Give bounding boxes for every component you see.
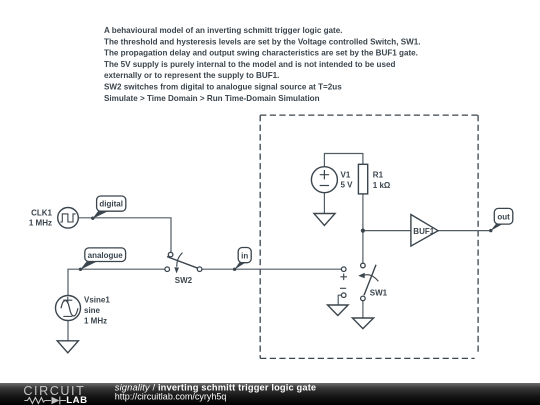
wire R1 bottom to SW1 top [362, 194, 364, 263]
wire SW1 bottom to ground [362, 301, 364, 318]
svg-text:CLK1: CLK1 [31, 209, 52, 218]
svg-text:LAB: LAB [66, 395, 88, 405]
svg-text:out: out [497, 212, 510, 221]
svg-text:R1: R1 [373, 171, 384, 180]
wire SW1 minus to ground [338, 295, 341, 305]
wire analogue to SW2 left [68, 269, 165, 295]
svg-text:analogue: analogue [88, 251, 124, 260]
wire BUF1 output to out [438, 230, 491, 232]
ground under Vsine1 [57, 341, 78, 353]
svg-text:The 5V supply is purely intern: The 5V supply is purely internal to the … [104, 60, 395, 69]
node junction dot [361, 229, 365, 233]
wire Vsine1 to ground [67, 321, 69, 341]
svg-text:5 V: 5 V [341, 181, 354, 190]
svg-text:http://circuitlab.com/cyryh5q: http://circuitlab.com/cyryh5q [115, 392, 227, 402]
ground under V1 [314, 214, 335, 226]
svg-text:SW2 switches from digital to a: SW2 switches from digital to analogue si… [104, 83, 342, 92]
flag digital [91, 196, 126, 220]
svg-text:BUF1: BUF1 [413, 227, 434, 236]
wire node to BUF1 input [363, 230, 411, 232]
svg-text:in: in [241, 251, 248, 260]
svg-text:The propagation delay and outp: The propagation delay and output swing c… [104, 49, 418, 58]
description text block [104, 26, 421, 103]
svg-text:SW1: SW1 [370, 289, 388, 298]
flag out [489, 208, 513, 232]
switch SW1 [340, 263, 388, 301]
dashed subcircuit box [260, 115, 478, 358]
footer bar [0, 383, 540, 405]
wire V1 top to R1 top [324, 154, 363, 167]
svg-text:V1: V1 [341, 170, 351, 179]
wire V1 bottom to ground [323, 193, 325, 214]
svg-text:1 MHz: 1 MHz [84, 317, 107, 326]
switch SW2 [165, 252, 202, 285]
svg-text:digital: digital [99, 200, 123, 209]
svg-text:sine: sine [84, 306, 101, 315]
buffer gate BUF1 [411, 215, 438, 247]
wire clock to SW2 top [78, 218, 171, 252]
logo squiggle: wire + resistor + diode [24, 397, 66, 405]
svg-text:Vsine1: Vsine1 [84, 295, 110, 304]
svg-text:Simulate > Time Domain > Run T: Simulate > Time Domain > Run Time-Domain… [104, 94, 320, 103]
svg-text:1 kΩ: 1 kΩ [373, 181, 391, 190]
voltage source V1 [311, 167, 353, 193]
svg-text:1 MHz: 1 MHz [29, 218, 52, 227]
flag analogue [79, 248, 126, 271]
svg-text:The threshold and hysteresis l: The threshold and hysteresis levels are … [104, 37, 421, 46]
sine source Vsine1 [56, 295, 111, 325]
svg-text:externally or to represent the: externally or to represent the supply to… [104, 71, 279, 80]
ground SW1 minus [328, 305, 349, 316]
flag in [233, 248, 251, 271]
ground SW1 bottom [352, 318, 373, 329]
resistor R1 [358, 164, 391, 194]
clock source CLK1 [29, 208, 78, 229]
svg-text:SW2: SW2 [175, 276, 193, 285]
wire SW2 right to SW1 plus [202, 268, 342, 270]
svg-text:A behavioural model of an inve: A behavioural model of an inverting schm… [104, 26, 343, 35]
